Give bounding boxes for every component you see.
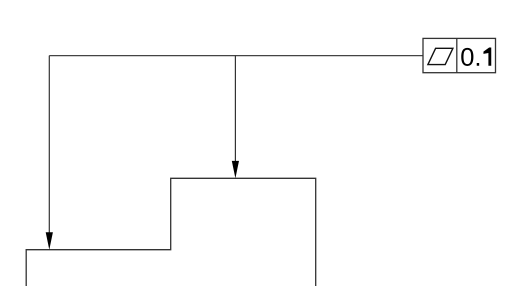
- arrowhead middle: [232, 161, 239, 178]
- flatness symbol (parallelogram): [428, 48, 453, 64]
- part outline (stepped surface): [26, 178, 316, 286]
- arrowhead left: [46, 232, 53, 249]
- wire left leader vertical: [48, 56, 50, 234]
- wire leader horizontal: [49, 55, 423, 57]
- feature control frame outer box: [423, 38, 496, 72]
- wire middle leader vertical: [234, 56, 236, 162]
- tolerance value 0.1: [461, 48, 491, 66]
- feature control frame divider: [456, 38, 458, 72]
